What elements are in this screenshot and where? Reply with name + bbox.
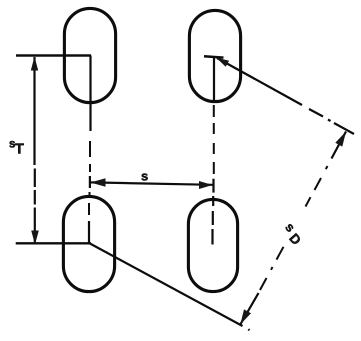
svg-text:s: s bbox=[141, 168, 148, 183]
svg-text:T: T bbox=[15, 141, 24, 158]
